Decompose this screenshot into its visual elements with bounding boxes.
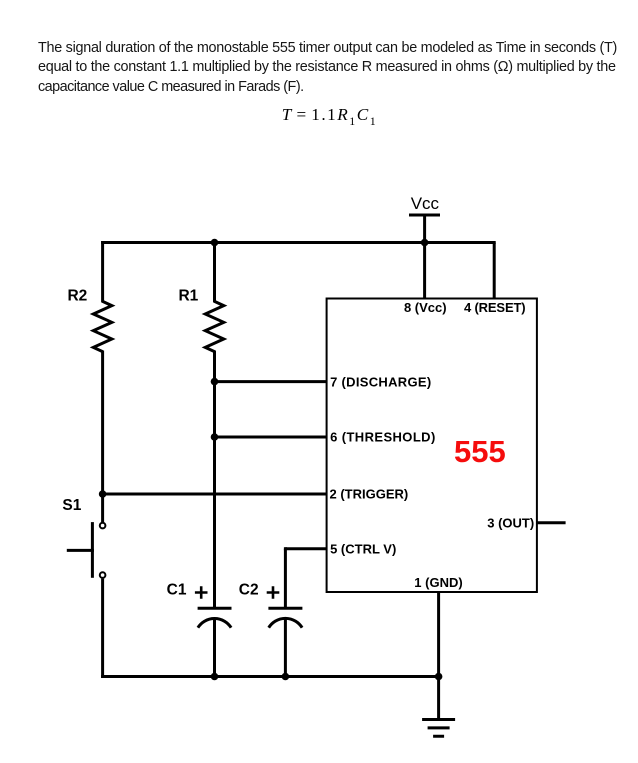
svg-text:5 (CTRL V): 5 (CTRL V) (330, 541, 396, 556)
svg-text:C1: C1 (167, 581, 187, 598)
switch S1 bottom terminal (100, 572, 106, 578)
svg-text:R2: R2 (67, 287, 87, 304)
wire: C2 riser (284, 547, 287, 609)
switch S1 actuator stub (67, 549, 94, 552)
wire: pin 7 discharge wire (213, 380, 328, 383)
wire: pin 1 ground drop (437, 591, 440, 720)
capacitor C2 top plate (268, 607, 302, 610)
wire: top supply rail (101, 241, 496, 244)
node: Vcc junction (421, 239, 429, 247)
capacitor C1 polarity plus (195, 586, 208, 599)
switch S1 top terminal (100, 523, 106, 529)
capacitor C2 curved plate (269, 618, 302, 627)
wire: pin 6 threshold wire (213, 436, 328, 439)
Vcc terminal bar (409, 214, 440, 217)
wire: pin 3 output stub (537, 521, 566, 524)
wire: R1/C1 rail (R1 bottom to C1 top plate) (213, 351, 216, 610)
wire: Vcc to pin 8 (423, 215, 426, 299)
op-amp/IC U1 555 box (327, 299, 537, 593)
wire: pin 2 trigger wire (103, 493, 328, 496)
svg-text:6 (THRESHOLD): 6 (THRESHOLD) (330, 430, 436, 445)
resistor R1 (205, 301, 224, 351)
svg-text:C2: C2 (239, 581, 259, 598)
paragraph text (38, 39, 617, 98)
capacitor C1 top plate (198, 607, 232, 610)
capacitor C1 curved plate (198, 619, 231, 628)
wire: left rail lower (switch to bottom rail) (101, 579, 104, 678)
resistor R2 (93, 301, 112, 351)
node: pin 6 junction (211, 433, 219, 441)
wire: R1 rail upper (213, 243, 216, 303)
wire: bottom rail (101, 675, 439, 678)
svg-text:S1: S1 (62, 497, 81, 514)
node: C1 bottom junction (211, 673, 219, 681)
svg-text:Vcc: Vcc (411, 194, 440, 213)
ground symbol (422, 720, 455, 737)
wire: pin 4 branch (493, 243, 496, 300)
svg-text:1 (GND): 1 (GND) (414, 575, 462, 590)
wire: pin 5 ctrl wire (285, 549, 327, 551)
svg-text:3 (OUT): 3 (OUT) (487, 516, 534, 531)
formula T = 1.1 R1 C1 (282, 105, 377, 125)
wire: left rail middle (R2 to switch) (101, 351, 104, 523)
svg-text:R1: R1 (178, 287, 198, 304)
wire: C1 to bottom rail (213, 618, 216, 678)
node: ground junction (435, 673, 443, 681)
wire: C2 to bottom rail (284, 618, 287, 678)
node: junction at R1 top (211, 239, 219, 247)
capacitor C2 polarity plus (267, 586, 280, 599)
node: pin 7 junction (211, 378, 219, 386)
svg-text:8 (Vcc): 8 (Vcc) (404, 300, 447, 315)
svg-text:555: 555 (454, 434, 506, 469)
wire: left rail upper (top rail to R2) (101, 241, 104, 303)
svg-text:4 (RESET): 4 (RESET) (464, 300, 526, 315)
svg-text:2 (TRIGGER): 2 (TRIGGER) (330, 487, 409, 502)
switch S1 actuator bar (91, 522, 94, 578)
node: C2 bottom junction (282, 673, 290, 681)
svg-text:7 (DISCHARGE): 7 (DISCHARGE) (330, 374, 431, 389)
node: trigger tap junction (99, 490, 107, 498)
